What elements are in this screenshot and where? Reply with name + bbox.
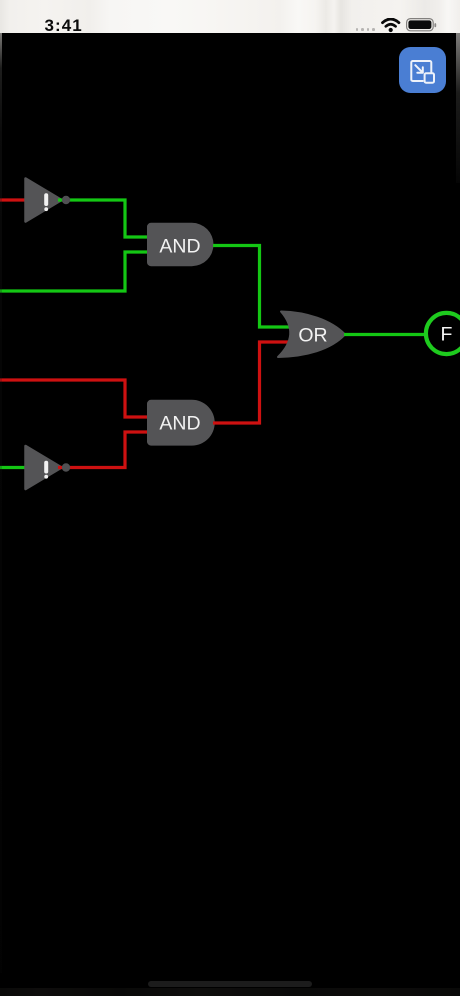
output node F bbox=[426, 313, 460, 354]
wire: U5 output to node F (green) bbox=[344, 333, 425, 336]
wifi icon bbox=[381, 18, 401, 33]
svg-text:AND: AND bbox=[159, 235, 200, 257]
battery icon bbox=[406, 18, 438, 33]
AND gate U2 bbox=[147, 223, 214, 266]
U3 output bubble bbox=[62, 463, 70, 471]
wire: green input net D to inverter U3 bbox=[0, 466, 26, 469]
U1 output bubble bbox=[62, 196, 70, 204]
wire: U3 output to AND gate U4 input 2 (red) bbox=[58, 432, 148, 468]
cellular signal dots bbox=[356, 28, 359, 31]
AND gate U4 bbox=[147, 400, 215, 446]
wire: red input net C to AND gate U4 input 1 bbox=[0, 380, 148, 417]
right screen edge light bleed bbox=[456, 33, 460, 183]
svg-text:AND: AND bbox=[159, 413, 200, 435]
shrink icon bbox=[399, 47, 446, 93]
home indicator bbox=[148, 981, 312, 987]
inverter U1 bbox=[26, 179, 62, 222]
wire: U4 output to OR gate U5 input 2 (red) bbox=[213, 342, 291, 423]
left screen edge light bleed bbox=[0, 33, 2, 973]
wire: input net B to AND gate U2 input 2 (green) bbox=[0, 252, 148, 291]
inverter U3 bbox=[26, 446, 62, 489]
wire: U1 output to AND gate U2 input 1 (green) bbox=[58, 200, 148, 237]
svg-text:OR: OR bbox=[298, 325, 327, 347]
status bar bbox=[0, 0, 460, 33]
wire: red input net to inverter U1 bbox=[0, 198, 26, 201]
status bar time bbox=[45, 16, 83, 36]
shrink-canvas toolbar button bbox=[399, 47, 446, 93]
OR gate U5 bbox=[278, 312, 345, 358]
wire: U2 output to OR gate U5 input 1 (green) bbox=[213, 246, 291, 328]
svg-text:F: F bbox=[441, 324, 453, 346]
